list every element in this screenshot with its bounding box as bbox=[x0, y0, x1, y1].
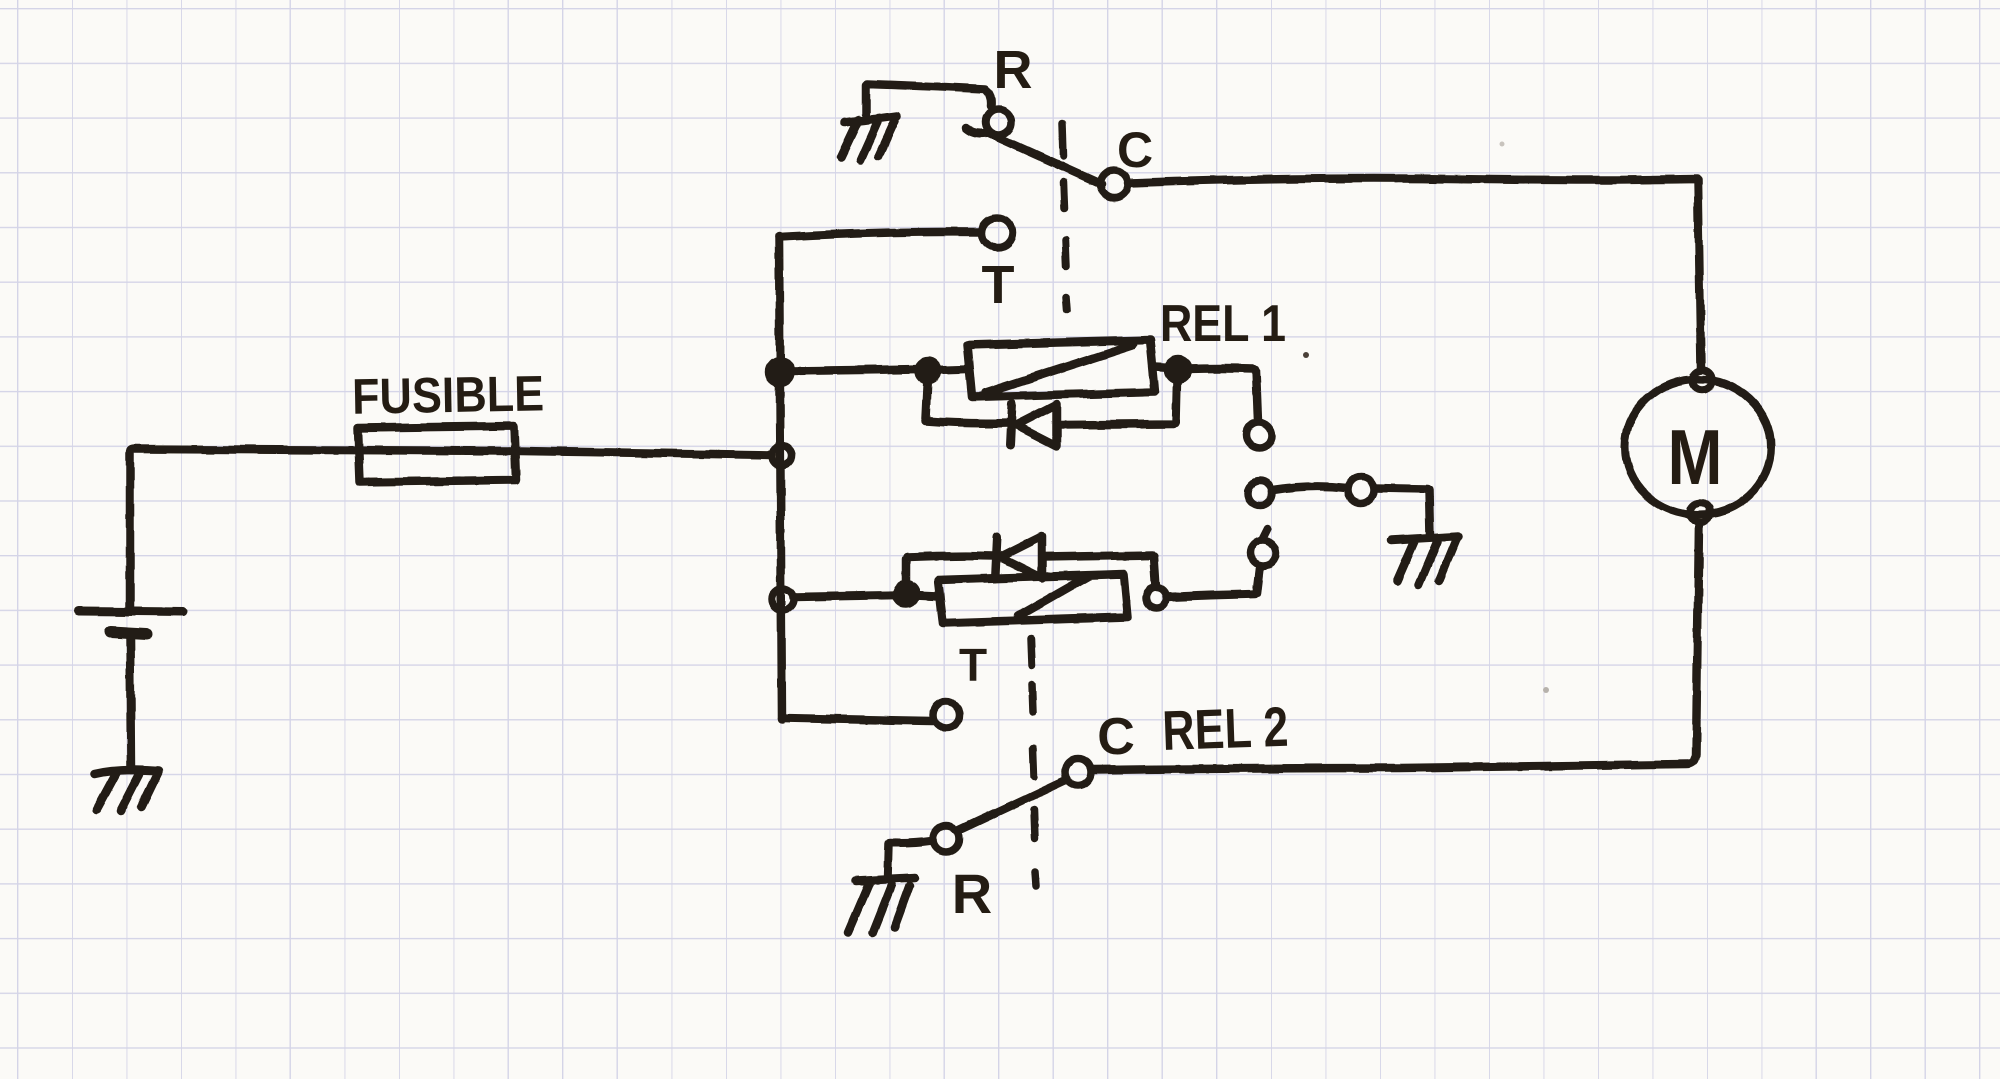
node (bus-fuse junction ring) bbox=[772, 446, 792, 466]
switch arm REL1 bbox=[966, 128, 1101, 184]
wire bus to REL1 coil bbox=[789, 369, 967, 371]
wire REL1 right bbox=[1155, 367, 1258, 421]
diode D1 triangle bbox=[1016, 404, 1057, 446]
contact circle left (aux switch) bbox=[1248, 481, 1272, 505]
junction (diode D1 tap) bbox=[919, 362, 938, 381]
contact terminal circle with tail bbox=[1250, 540, 1276, 566]
mechanical link dashes REL1 bbox=[1062, 123, 1067, 310]
wire battery to ground bbox=[130, 636, 131, 770]
wire battery to fuse to bus bbox=[130, 449, 772, 607]
contact terminal circle (REL1 right) bbox=[1246, 422, 1272, 448]
wire motor to contact C bottom bbox=[1092, 523, 1699, 770]
contact T (REL2) terminal circle bbox=[933, 702, 959, 728]
contact R (REL2) circle bbox=[933, 826, 959, 852]
speck bbox=[1500, 142, 1505, 147]
contact T (REL1) terminal circle bbox=[982, 218, 1012, 248]
contact R (REL1) circle bbox=[986, 109, 1012, 135]
diode D1 branch wires bbox=[926, 378, 1177, 425]
relay coil REL2 bbox=[938, 574, 1128, 623]
diode D2 cathode bar bbox=[995, 537, 997, 578]
node ring (REL2 right) bbox=[1146, 588, 1166, 608]
switch arm REL2 bbox=[957, 780, 1066, 831]
junction on bus (REL1 feed) bbox=[769, 361, 791, 383]
diode D2 triangle bbox=[1000, 536, 1042, 578]
wire bus to contact T bottom bbox=[782, 718, 932, 721]
svg-text:R: R bbox=[994, 40, 1033, 100]
svg-text:T: T bbox=[982, 255, 1015, 315]
contact C (REL1) circle bbox=[1100, 170, 1128, 198]
battery B1 bottom plate bbox=[111, 632, 146, 634]
diode D2 branch wires bbox=[906, 555, 1156, 588]
mechanical link dashes REL2 bbox=[1031, 638, 1036, 886]
contact circle right (aux switch) bbox=[1348, 477, 1374, 503]
ground (bottom middle) bbox=[848, 878, 915, 933]
svg-text:T: T bbox=[959, 639, 987, 691]
contact tail stroke bbox=[1262, 528, 1268, 540]
svg-text:C: C bbox=[1097, 708, 1135, 766]
motor M body bbox=[1625, 379, 1771, 515]
wire ground to contact R top bbox=[866, 84, 991, 114]
svg-text:R: R bbox=[952, 862, 992, 925]
wire REL2 right to contact bbox=[1166, 568, 1260, 597]
ground (aux switch) bbox=[1391, 536, 1459, 585]
wire bus to contact T top bbox=[779, 232, 981, 237]
coil diagonal REL2 bbox=[1018, 576, 1088, 616]
fuse F1 bbox=[358, 426, 516, 482]
ground (top left) bbox=[841, 116, 897, 160]
wire contact R to ground bbox=[888, 841, 932, 879]
speck bbox=[1303, 352, 1309, 358]
svg-text:FUSIBLE: FUSIBLE bbox=[352, 365, 545, 424]
contact C (REL2) circle bbox=[1065, 759, 1091, 785]
aux switch blade wire bbox=[1273, 486, 1347, 490]
motor terminal top bbox=[1692, 370, 1712, 390]
wire aux switch to ground bbox=[1375, 488, 1430, 536]
motor terminal bottom bbox=[1690, 503, 1710, 523]
node (bus REL2 feed ring) bbox=[772, 588, 794, 610]
svg-text:C: C bbox=[1117, 122, 1153, 178]
svg-text:REL 1: REL 1 bbox=[1160, 295, 1286, 353]
junction (REL1 right) bbox=[1168, 360, 1188, 380]
relay coil REL1 bbox=[967, 340, 1155, 397]
svg-text:M: M bbox=[1668, 413, 1723, 501]
junction (diode D2 tap) bbox=[896, 584, 916, 604]
coil diagonal REL1 bbox=[985, 345, 1133, 393]
svg-text:REL 2: REL 2 bbox=[1161, 695, 1289, 762]
ground (battery) bbox=[95, 770, 158, 811]
diode D1 cathode bar bbox=[1010, 404, 1012, 446]
bus wire vertical bbox=[779, 236, 782, 719]
battery B1 top plate bbox=[79, 611, 183, 612]
speck bbox=[1543, 687, 1549, 693]
wire bus to REL2 coil bbox=[794, 595, 938, 597]
wire contact C to motor bbox=[1128, 179, 1701, 370]
